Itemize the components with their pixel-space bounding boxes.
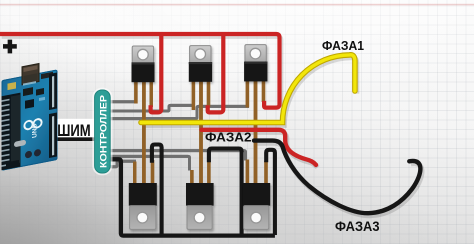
gate wires gray, top group [106, 102, 249, 171]
transistor Q2 (TO-220, top row) [189, 46, 212, 82]
crystal [14, 140, 26, 148]
caps bottom [25, 150, 32, 158]
node phase1 column Q1-Q4 source/drain leg [142, 80, 146, 184]
transistor legs (tan) [135, 80, 266, 186]
wire phase3 black horizontal and swoop [254, 141, 420, 214]
transistor Q1 (TO-220, top row) [132, 46, 155, 82]
wire Q4 source to ground bus [152, 145, 162, 236]
faint page edge line [0, 4, 474, 6]
dip ic with socket pins [2, 93, 21, 171]
headers right [49, 73, 57, 111]
wire gate Q1 [106, 100, 137, 103]
pads [23, 81, 36, 86]
leg Q3 gate [246, 80, 249, 108]
wire gate Q3 [106, 106, 249, 118]
svg-text:ФАЗА1: ФАЗА1 [322, 38, 364, 53]
wire phase2 red [202, 130, 317, 165]
logo [24, 118, 41, 130]
power header small [41, 72, 53, 79]
wire gate Q4 [106, 161, 136, 167]
leg Q4 source [151, 160, 154, 186]
leg Q6 gate [246, 160, 249, 187]
transistor Q4 (TO-220 flipped, bottom row) [129, 183, 157, 229]
wire drop +V to Q1 drain [151, 36, 162, 112]
leg Q5 source [207, 161, 210, 186]
leg Q6 source [264, 161, 267, 186]
label plate PWM [57, 119, 95, 137]
small ics [23, 87, 33, 96]
Arduino controller board [2, 60, 58, 171]
transistor Q3 (TO-220, top row) [244, 45, 267, 82]
svg-text:ФАЗА2: ФАЗА2 [205, 130, 252, 145]
leg Q2 drain [207, 80, 210, 107]
wire Q6 source to ground bus [266, 150, 275, 235]
transistor Q5 (TO-220 flipped, bottom row) [186, 183, 214, 229]
wire phase1 yellow bus and curve [141, 55, 355, 123]
wire highlight strokes [106, 101, 137, 103]
wire gate Q5 [106, 156, 190, 170]
fuse [8, 82, 17, 90]
leg Q3 drain [262, 80, 265, 102]
power rail +V red bus with corner drop to Q3 [0, 34, 280, 112]
soft shadows under long wires [2, 37, 422, 216]
bottom components [6, 160, 19, 169]
ground bus black with riser [107, 159, 275, 235]
svg-text:UNO: UNO [32, 123, 39, 139]
leg Q1 drain [149, 80, 152, 107]
wire gate Q2 [106, 105, 194, 111]
controller box (teal) [93, 89, 111, 174]
leg Q5 gate [190, 170, 193, 186]
svg-text:ФАЗА3: ФАЗА3 [335, 219, 380, 234]
wire drop +V to Q2 drain [208, 36, 224, 112]
node phase2 column Q2-Q5 leg [199, 80, 203, 184]
wire PWM from Arduino to controller [55, 106, 96, 139]
leg Q2 gate [192, 80, 195, 110]
transistor Q6 (TO-220 flipped, bottom row) [243, 183, 271, 229]
wire gate Q6 [106, 151, 246, 161]
usb connector [22, 64, 39, 85]
plus terminal symbol [3, 40, 17, 54]
svg-text:ШИМ: ШИМ [57, 122, 90, 140]
wire Q5 source to ground bus [209, 149, 242, 236]
svg-text:КОНТРОЛЛЕР: КОНТРОЛЛЕР [98, 94, 109, 168]
node phase3 column Q3-Q6 leg [254, 80, 258, 184]
leg highlight strokes [143, 80, 145, 184]
leg Q1 gate [134, 80, 137, 104]
leg Q4 gate [133, 162, 136, 187]
